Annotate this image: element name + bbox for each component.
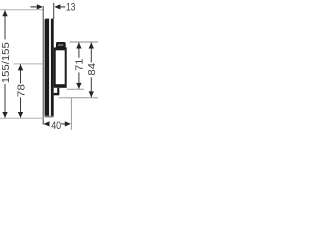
handle bottom reference line: [67, 88, 84, 90]
dimension 13: left arrow: [31, 4, 43, 9]
dimension 71: line: [78, 43, 80, 58]
handle body: [54, 47, 67, 87]
neck bottom reference line: [59, 97, 98, 99]
plate front panel (side view): [51, 19, 54, 116]
handle neck: [54, 88, 60, 96]
wall line: [42, 6, 44, 124]
dimension 40: line stub: [61, 123, 65, 125]
dimension 84: line: [90, 43, 92, 63]
plate bottom edge (gray): [45, 116, 54, 118]
bottom reference line (155 datum): [0, 117, 44, 119]
dimension 78: down arrow: [18, 112, 23, 118]
svg-text:71: 71: [74, 58, 86, 71]
dimension 13: right arrow: [54, 4, 65, 9]
svg-text:155/155: 155/155: [0, 42, 12, 83]
handle neck inner: [54, 88, 58, 93]
dimension 84: up arrow: [89, 43, 94, 49]
handle knob inner: [58, 44, 63, 46]
plate back bar (escutcheon, side view): [45, 19, 50, 116]
dimension 78: up arrow: [18, 64, 23, 70]
top reference line (wall top datum): [0, 9, 43, 11]
dimension 84: down arrow: [89, 91, 94, 97]
svg-text:13: 13: [66, 2, 76, 14]
svg-text:84: 84: [86, 63, 98, 76]
dimension 155/155: line: [4, 10, 6, 39]
dimension 78: line: [20, 64, 22, 83]
handle knob: [56, 42, 66, 48]
dimension 155/155: up arrow: [2, 10, 7, 16]
handle body inner: [56, 50, 65, 84]
dimension 71: up arrow: [76, 43, 81, 49]
svg-text:40: 40: [51, 120, 61, 130]
axis reference line: [14, 63, 43, 65]
dimension 40: left arrow: [43, 121, 49, 126]
40 dim extension line: [70, 98, 72, 130]
extension line of plate front face (13 dim): [53, 3, 55, 19]
svg-text:78: 78: [16, 84, 28, 97]
dimension 71: down arrow: [76, 83, 81, 89]
dimension 40: right arrow: [65, 121, 71, 126]
knob top reference line: [70, 41, 98, 43]
dimension 155/155: down arrow: [2, 112, 7, 118]
